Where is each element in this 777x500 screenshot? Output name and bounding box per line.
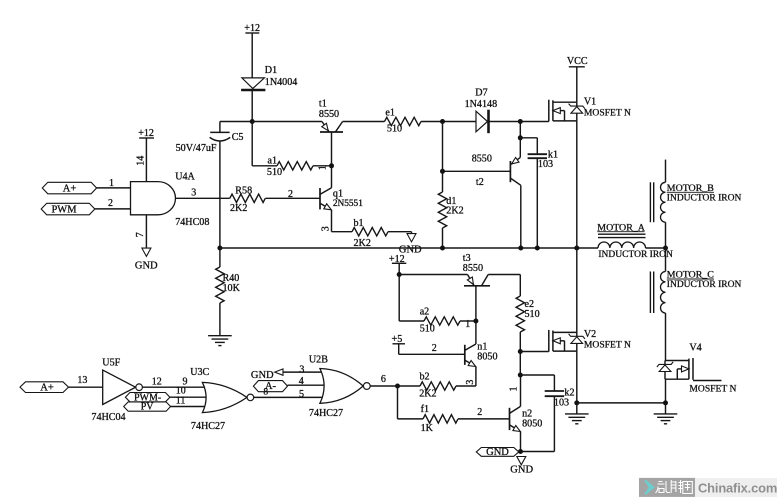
svg-text:510: 510 (387, 124, 402, 135)
svg-text:2N5551: 2N5551 (333, 199, 363, 209)
node bus left end (217, 246, 222, 251)
node +12 rail junction at D1 (250, 119, 255, 124)
node k1 tap (518, 135, 523, 140)
inductor MOTOR_B coil (661, 182, 666, 222)
wire t2 collector to bus (520, 185, 522, 248)
wire C5 bottom lead to bus (219, 141, 221, 248)
wire t3 base down (475, 286, 477, 342)
svg-text:3: 3 (465, 380, 476, 385)
wire t2 base to d1 node (443, 170, 511, 172)
port A- (253, 381, 287, 392)
node GND junction (518, 449, 523, 454)
svg-text:103: 103 (538, 159, 553, 170)
inductor MOTOR_A coil (598, 242, 646, 248)
wire e1 to D7 (421, 121, 476, 123)
svg-text:12: 12 (152, 376, 162, 387)
node k1/bus (535, 246, 540, 251)
svg-text:a1: a1 (268, 155, 278, 166)
port PWM- (125, 393, 169, 402)
node V4 source / gnd (663, 400, 668, 405)
wire R58 to q1 base (265, 197, 320, 199)
port PV (124, 402, 171, 411)
svg-text:U4A: U4A (175, 172, 195, 183)
wire MOTOR_C to V4 (665, 313, 667, 361)
resistor d1 2K2 (438, 192, 446, 228)
svg-text:13: 13 (77, 375, 87, 386)
svg-text:510: 510 (420, 323, 435, 334)
svg-text:D7: D7 (475, 88, 487, 99)
svg-text:74HC04: 74HC04 (91, 412, 125, 423)
node +12 tee (397, 272, 402, 277)
resistor R40 10K (219, 248, 221, 267)
svg-text:t2: t2 (476, 177, 484, 188)
svg-text:2K2: 2K2 (230, 203, 247, 214)
mosfet V4 MOSFET N (657, 358, 693, 380)
wire n2 emitter to k2 gnd (521, 451, 555, 453)
svg-text:8050: 8050 (477, 351, 497, 362)
svg-text:2: 2 (108, 198, 113, 209)
svg-text:510: 510 (525, 309, 540, 320)
diode D7 1N4148 (476, 111, 488, 132)
svg-text:74HC08: 74HC08 (175, 217, 209, 228)
wire n2 emitter down (520, 432, 522, 452)
svg-text:MOSFET N: MOSFET N (584, 340, 631, 351)
wire +5 to n1 base (398, 344, 400, 355)
mosfet V2 MOSFET N (549, 330, 585, 352)
transistor n1 8050 (NPN) (464, 345, 466, 365)
svg-text:74HC27: 74HC27 (191, 421, 225, 432)
wire d1 top (442, 122, 444, 193)
node t2/bus (518, 246, 523, 251)
svg-text:a2: a2 (420, 306, 430, 317)
wire V1/V2 link (576, 248, 578, 333)
svg-text:1: 1 (109, 178, 114, 189)
wire D7 to V1 gate (490, 121, 549, 123)
resistor e1 510 (385, 117, 422, 125)
wire b1 to GND arrow (388, 231, 412, 233)
svg-text:V1: V1 (584, 97, 596, 108)
capacitor C5 50V/47uF (210, 131, 229, 133)
svg-text:2: 2 (432, 343, 437, 354)
svg-text:1K: 1K (421, 423, 434, 434)
wire t1 base down (331, 132, 333, 166)
transistor n2 8050 (NPN) (509, 408, 511, 430)
wire V2 source down (576, 351, 578, 403)
wire t3 collector to e2 rail (488, 274, 520, 276)
svg-text:e1: e1 (385, 107, 395, 118)
port PWM (41, 203, 95, 215)
wire k1 bottom to bus (536, 158, 538, 248)
wire b2 to n1 emitter (456, 385, 476, 387)
resistor b1 2K2 (352, 228, 388, 236)
wire MOTOR_B bottom (665, 222, 667, 248)
wire C5 top lead (219, 122, 221, 133)
transistor t1 8550 (PNP) (320, 131, 343, 133)
ground arrow n2 (517, 457, 526, 465)
wire a2 to t3 base (460, 320, 476, 322)
port GND tag (476, 448, 519, 457)
resistor R58 2K2 (230, 194, 265, 202)
svg-text:8550: 8550 (463, 263, 483, 274)
transistor t3 8550 (PNP) (464, 285, 490, 287)
core MOTOR_B (649, 182, 651, 222)
svg-text:MOSFET N: MOSFET N (689, 384, 736, 395)
svg-text:10K: 10K (223, 283, 241, 294)
svg-text:f1: f1 (421, 404, 429, 415)
wire PWM- to U3C pin10 (170, 396, 212, 398)
wire f1 to n2 base (458, 418, 510, 420)
svg-text:D1: D1 (265, 65, 277, 76)
wire e2 bottom (519, 332, 521, 375)
node t1 base / q1 collector / a1 (329, 163, 334, 168)
node d1/bus (440, 246, 445, 251)
svg-text:8050: 8050 (522, 418, 542, 429)
wire f1 lead (398, 418, 424, 420)
wire n2 collector up (520, 375, 522, 406)
svg-text:2K2: 2K2 (354, 238, 371, 249)
wire A- to U2B pin4 (288, 384, 329, 386)
node V1 source/bus (574, 246, 579, 251)
wire U5F out to U3C pin9 (142, 386, 211, 388)
svg-text:U5F: U5F (102, 357, 120, 368)
wire +12 to D1 (251, 33, 253, 78)
transistor t2 8550 (PNP) (509, 161, 511, 182)
wire MOTOR_B top stub (665, 160, 667, 183)
port A+ (top) (42, 182, 96, 194)
svg-text:1N4148: 1N4148 (465, 99, 498, 110)
svg-text:U2B: U2B (309, 354, 328, 365)
svg-text:1: 1 (318, 165, 329, 170)
svg-text:2: 2 (288, 189, 293, 200)
svg-text:Chinafix.com: Chinafix.com (698, 481, 777, 496)
wire t1 collector to e1 (343, 121, 385, 123)
ground (V4) (665, 403, 667, 414)
svg-text:6: 6 (381, 374, 386, 385)
ground arrow U4A pin7 (142, 248, 151, 256)
svg-text:GND: GND (486, 447, 509, 458)
svg-text:2K2: 2K2 (446, 206, 463, 217)
wire A+ to U5F (69, 386, 103, 388)
wire b2 lead (398, 385, 421, 387)
svg-text:7: 7 (135, 232, 146, 237)
wire V4 gate stub (693, 380, 722, 382)
wire V4 source down (665, 379, 667, 403)
wire D1 to +12 rail (251, 91, 253, 122)
svg-text:1: 1 (465, 319, 470, 330)
svg-text:103: 103 (554, 398, 569, 409)
node V2 gate tee (518, 349, 523, 354)
svg-text:50V/47uF: 50V/47uF (176, 143, 217, 154)
node k2 tee (518, 373, 523, 378)
node V2 source / gnd (574, 400, 579, 405)
resistor a2 510 (424, 317, 460, 325)
svg-text:INDUCTOR IRON: INDUCTOR IRON (598, 250, 673, 260)
wire GND to U2B pin3 (283, 371, 328, 373)
wire U4A pin3 output (176, 197, 230, 199)
svg-text:C5: C5 (232, 132, 244, 143)
svg-text:b2: b2 (420, 371, 430, 382)
svg-text:A+: A+ (63, 183, 77, 194)
wire VCC to V1 drain (576, 67, 578, 102)
logic gate U2B 74HC27 (NOR) (320, 369, 363, 404)
svg-text:A+: A+ (40, 382, 54, 393)
pin 7 wire and label (145, 215, 147, 248)
resistor a1 510 (277, 162, 313, 170)
wire V1 source down to bus (576, 121, 578, 248)
core MOTOR_A (598, 233, 646, 235)
svg-text:74HC27: 74HC27 (309, 408, 343, 419)
wire PV to U3C pin11 (171, 406, 211, 408)
wire f1 drop (397, 386, 399, 419)
wire +12 down (398, 263, 400, 321)
svg-text:GND: GND (135, 260, 158, 271)
node V1 gate / t2 emitter / D7 (518, 119, 523, 124)
svg-text:+12: +12 (244, 23, 260, 34)
transistor q1 2N5551 (NPN) (319, 188, 321, 209)
ground (V2) (576, 403, 578, 414)
resistor f1 1K (423, 415, 458, 423)
wire k1 top lead (520, 137, 537, 139)
capacitor k2 103 (545, 390, 564, 392)
svg-text:PWM: PWM (51, 204, 77, 215)
wire motor A to motor junction (646, 247, 666, 249)
inductor MOTOR_C coil (660, 272, 665, 314)
svg-text:11: 11 (176, 395, 186, 406)
node U2B out / b2 / f1 (395, 384, 400, 389)
svg-text:GND: GND (251, 370, 274, 381)
node motor junction (663, 246, 668, 251)
svg-text:INDUCTOR IRON: INDUCTOR IRON (667, 193, 742, 203)
wire t2 emitter up (519, 122, 521, 158)
svg-text:14: 14 (136, 156, 147, 166)
svg-text:8550: 8550 (319, 109, 339, 120)
svg-text:2K2: 2K2 (419, 389, 436, 400)
ground (R40) (208, 335, 232, 337)
arrow GND pin3 (275, 369, 283, 375)
diode D1 1N4004 (242, 78, 265, 89)
svg-text:5: 5 (299, 389, 304, 400)
watermark (639, 478, 777, 497)
node t3 base / a2 (473, 319, 478, 324)
wire q1 emitter down (331, 210, 333, 232)
ground arrow b1 (407, 234, 416, 242)
wire n1 emitter down (475, 367, 477, 387)
wire q1 emitter to b1 (332, 231, 353, 233)
resistor b2 2K2 (420, 382, 456, 390)
wire U3C out to U2B pin5 (254, 396, 328, 398)
node t2 base / d1 (440, 169, 445, 174)
svg-text:510: 510 (267, 167, 282, 178)
capacitor k1 103 (528, 153, 547, 155)
svg-text:MOSFET N: MOSFET N (584, 107, 631, 118)
svg-text:GND: GND (510, 464, 533, 475)
svg-text:3: 3 (320, 226, 331, 231)
wire V2 gate lead (520, 351, 549, 353)
svg-text:V2: V2 (584, 329, 596, 340)
svg-text:V4: V4 (689, 343, 701, 354)
svg-text:VCC: VCC (567, 56, 588, 67)
wire n1 collector up (475, 342, 477, 344)
resistor e2 510 (519, 275, 521, 297)
wire A+ to pin1 (97, 187, 131, 189)
svg-text:2: 2 (477, 407, 482, 418)
wire U2B out (370, 385, 397, 387)
core MOTOR_C (649, 272, 651, 314)
logic gate U5F 74HC04 (inverter) (103, 370, 136, 404)
wire a1 feed from +12 rail (251, 122, 253, 166)
svg-text:b1: b1 (354, 218, 364, 229)
svg-text:1N4004: 1N4004 (265, 77, 298, 88)
logic gate U3C 74HC27 (NOR) (202, 382, 247, 412)
wire +12 to t3 emitter (399, 274, 467, 276)
wire q1 collector up (331, 166, 333, 188)
node e1 / d1 junction (440, 119, 445, 124)
svg-text:3: 3 (191, 188, 196, 199)
svg-text:1: 1 (508, 387, 519, 392)
svg-text:8: 8 (263, 387, 268, 397)
wire +12 rail left segment (220, 121, 322, 123)
svg-text:R58: R58 (235, 186, 252, 197)
svg-text:PV: PV (141, 402, 155, 413)
wire PWM to pin2 (95, 208, 131, 210)
wire MOTOR_C top (665, 248, 667, 272)
svg-text:INDUCTOR IRON: INDUCTOR IRON (667, 280, 742, 290)
wire d1 bottom to bus (442, 228, 444, 248)
logic gate U4A 74HC08 (AND) (131, 182, 176, 215)
svg-text:U3C: U3C (190, 367, 209, 378)
mosfet V1 MOSFET N (548, 100, 550, 122)
wire bus (phase A rail) (220, 247, 598, 249)
wire k2 top lead (520, 374, 554, 376)
wire a2 lead (399, 320, 424, 322)
svg-text:3: 3 (299, 364, 304, 375)
wire U4A pin14 (145, 138, 147, 182)
wire V2 source to V4 source (577, 402, 666, 404)
svg-text:4: 4 (299, 376, 304, 387)
svg-text:8550: 8550 (472, 154, 492, 165)
wire k2 bottom (553, 396, 555, 451)
port A+ (bottom) (20, 382, 69, 393)
